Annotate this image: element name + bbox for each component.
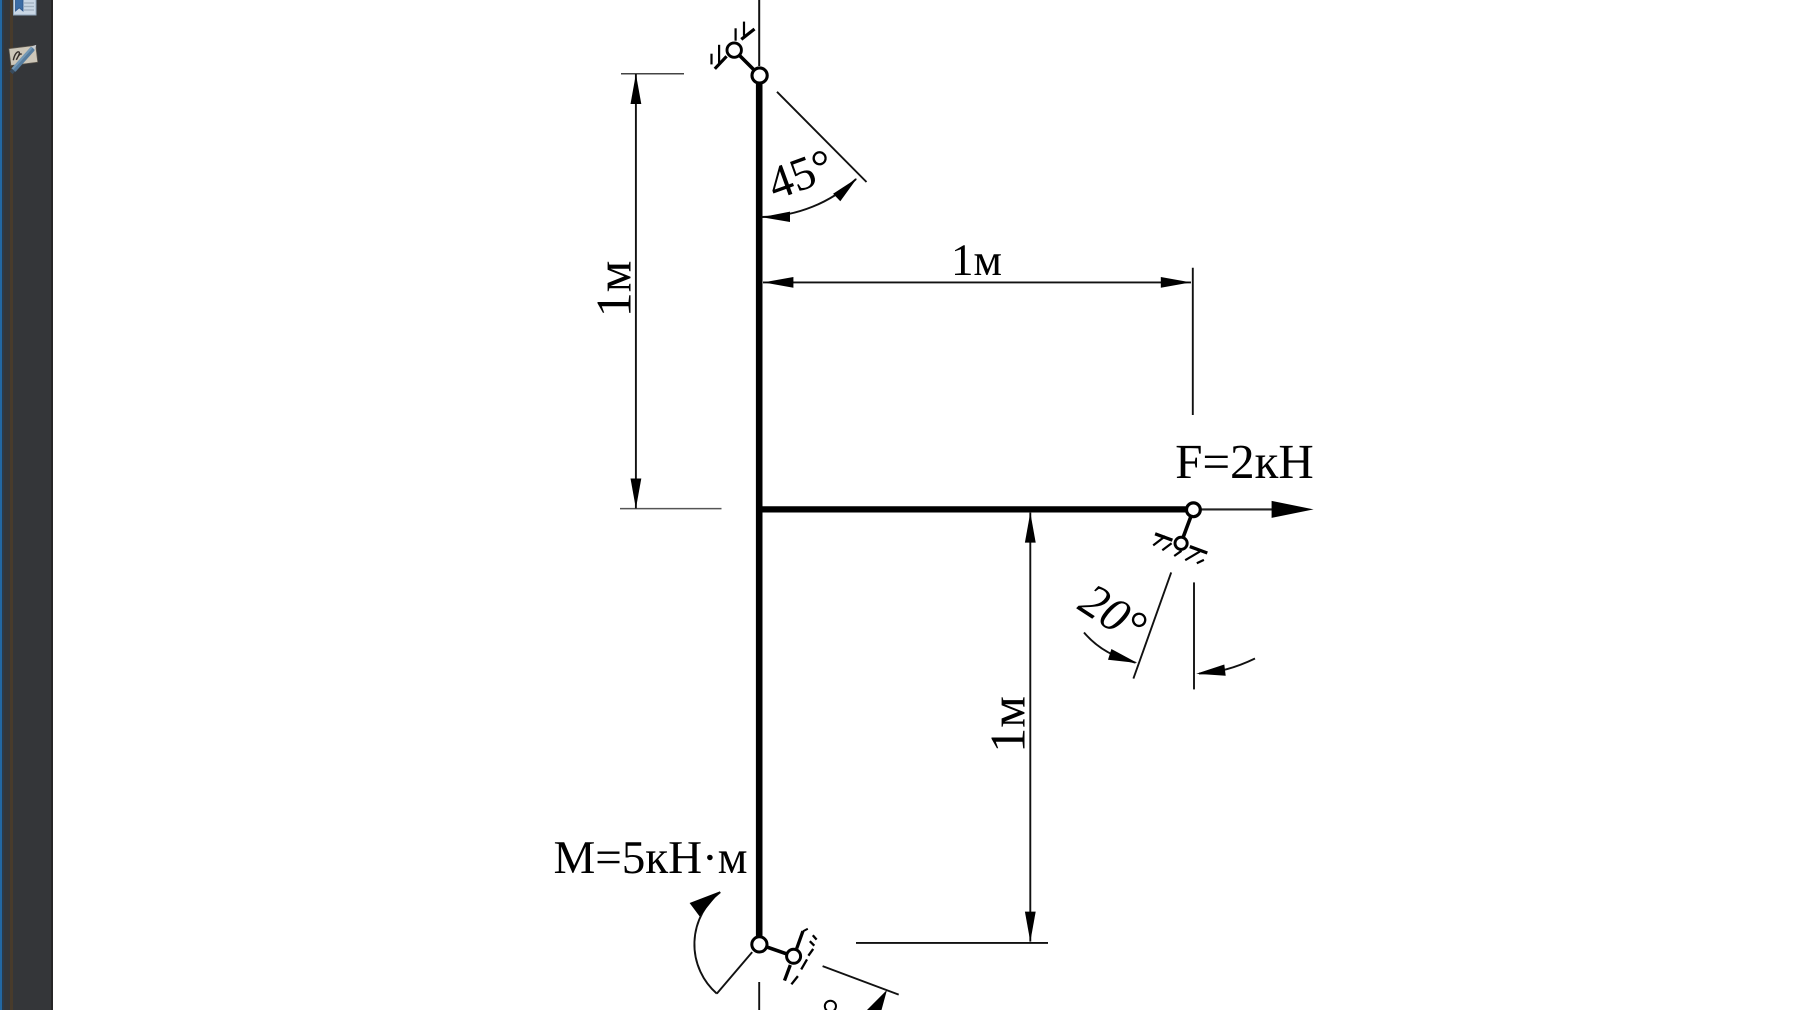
bottom degree symbol	[825, 1001, 836, 1010]
20 degree arc left with arrow	[1084, 633, 1136, 663]
pin circle C5 bottom support	[787, 949, 801, 963]
45 degree angle arc	[762, 179, 857, 217]
label M=5kN·m	[555, 842, 747, 873]
dimension 1m right: bottom reference line	[856, 942, 1048, 944]
20 degree inclined reference line	[1133, 572, 1171, 678]
extension line below bottom pin	[758, 982, 760, 1010]
label 45deg	[765, 149, 835, 200]
20 degree vertical reference line	[1193, 582, 1195, 689]
20 degree arc right with arrow	[1199, 659, 1255, 674]
45 degree reference line	[777, 92, 867, 182]
pin circle C4 beam bottom	[752, 937, 767, 952]
dimension 1m top: dimension line with arrows	[763, 281, 1191, 283]
beam vertical member	[756, 83, 763, 937]
dimension 1m left: dimension line with arrows	[635, 74, 637, 509]
wire vertical reference line above top pin	[758, 0, 760, 66]
link rod right support	[1181, 510, 1194, 544]
force arrow F	[1201, 508, 1283, 510]
label 1m right	[992, 697, 1025, 748]
dimension 1m left: extension lines	[621, 73, 684, 75]
pin circle C1 beam top	[752, 68, 767, 83]
link rod top support	[734, 50, 759, 75]
label 20deg	[1076, 582, 1149, 645]
pin circle C2 arm end	[1187, 503, 1201, 517]
pin circle C3 right support	[1175, 537, 1187, 549]
moment arc M	[694, 892, 720, 994]
bottom angle arc arrow	[864, 990, 887, 1010]
label 1m left	[598, 262, 631, 313]
beam horizontal member	[759, 506, 1185, 512]
toolbar icon document	[13, 0, 37, 16]
label F=2kN	[1177, 446, 1313, 478]
dimension 1m top: extension line right	[1192, 268, 1194, 415]
bottom angle inclined reference line	[823, 966, 899, 995]
ground hatching top support	[712, 22, 755, 69]
ground hatching bottom support	[785, 929, 817, 985]
ground hatching right support	[1153, 534, 1207, 563]
toolbar icon signature pen	[7, 41, 40, 75]
link rod bottom support	[759, 944, 793, 956]
label 1m top	[955, 245, 1001, 275]
moment radius line	[717, 952, 752, 994]
dimension 1m right: dimension line with arrows	[1029, 513, 1031, 942]
pin circle C0 top support	[727, 43, 741, 57]
